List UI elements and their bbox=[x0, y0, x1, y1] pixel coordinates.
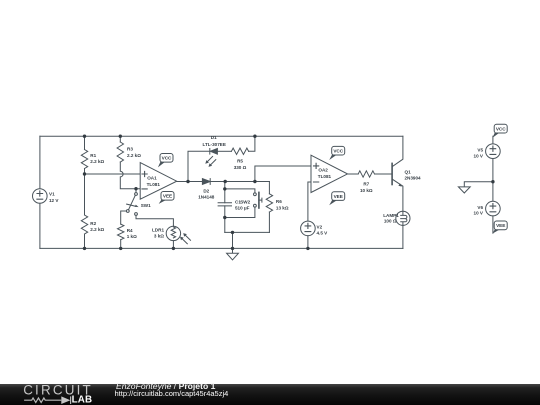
wire R5 to top rail bbox=[249, 136, 255, 151]
svg-text:R3: R3 bbox=[127, 147, 133, 152]
lamp LAMP1 bbox=[396, 211, 410, 225]
svg-text:R1: R1 bbox=[90, 153, 96, 158]
wire R1-R2 link bbox=[84, 169, 86, 216]
wire left rail upper bbox=[39, 136, 41, 189]
resistor R2 bbox=[81, 215, 87, 234]
wire R6 bottom stub bbox=[268, 212, 270, 232]
svg-text:OA1: OA1 bbox=[147, 176, 157, 181]
svg-text:LTL-307EE: LTL-307EE bbox=[202, 142, 225, 147]
wire R2 bottom stub bbox=[84, 234, 86, 248]
wire OA2 - input to V2 bbox=[308, 182, 311, 221]
wire R7 to Q1 base bbox=[375, 173, 392, 175]
wire V5 to V6 bbox=[492, 159, 494, 202]
svg-text:R6: R6 bbox=[276, 199, 282, 204]
wire VCC to V5 bbox=[492, 136, 494, 144]
wire left rail lower bbox=[39, 203, 41, 248]
svg-text:VCC: VCC bbox=[162, 156, 172, 161]
switch SW1 bbox=[135, 189, 137, 193]
footer credit text bbox=[116, 382, 215, 391]
power flag VCC (OA1) bbox=[158, 161, 165, 167]
svg-text:LDR1: LDR1 bbox=[152, 227, 164, 232]
voltage source V1 bbox=[33, 189, 48, 204]
svg-text:10 kΩ: 10 kΩ bbox=[360, 188, 373, 193]
wire R1 top stub bbox=[84, 136, 86, 149]
power flag VCC (OA2) bbox=[329, 154, 337, 160]
svg-text:SW1: SW1 bbox=[141, 203, 151, 208]
power flag VEE (OA2) bbox=[329, 200, 337, 205]
resistor R6 bbox=[266, 194, 272, 212]
svg-text:100 Ω: 100 Ω bbox=[384, 219, 397, 224]
wire OA2 + input bbox=[255, 166, 311, 182]
wire V6 to VEE bbox=[492, 216, 494, 233]
svg-text:OA2: OA2 bbox=[318, 168, 328, 173]
junction dots bbox=[83, 135, 495, 251]
svg-text:R7: R7 bbox=[363, 182, 369, 187]
ground (mid) bbox=[227, 253, 239, 260]
svg-text:R4: R4 bbox=[127, 228, 133, 233]
footer bar bbox=[0, 384, 540, 405]
wire SW2 top link bbox=[225, 189, 255, 193]
wire R6 top stub bbox=[268, 182, 270, 194]
svg-text:D2: D2 bbox=[203, 188, 209, 193]
svg-text:10 V: 10 V bbox=[474, 211, 484, 216]
voltage source V2 bbox=[301, 221, 316, 236]
resistor R5 bbox=[231, 148, 248, 154]
wire ground branch bbox=[464, 182, 493, 187]
svg-text:1N4148: 1N4148 bbox=[198, 195, 215, 200]
svg-text:13 kΩ: 13 kΩ bbox=[276, 206, 289, 211]
svg-text:V6: V6 bbox=[477, 205, 483, 210]
wire ground drop bbox=[232, 232, 234, 253]
svg-text:V1: V1 bbox=[49, 192, 55, 197]
labels bbox=[49, 126, 506, 239]
resistor R7 bbox=[358, 171, 374, 177]
svg-text:VEE: VEE bbox=[496, 223, 505, 228]
svg-text:12 V: 12 V bbox=[49, 198, 59, 203]
svg-text:V2: V2 bbox=[317, 224, 323, 229]
svg-text:4.5 V: 4.5 V bbox=[317, 231, 329, 236]
wire bottom rail bbox=[40, 247, 403, 249]
CircuitLab logo bbox=[0, 384, 110, 405]
wire R4 bottom stub bbox=[120, 240, 122, 249]
svg-text:TL081: TL081 bbox=[147, 182, 161, 187]
wire cap branch left column bbox=[224, 182, 226, 233]
diode D2 bbox=[202, 179, 210, 185]
wire lamp bottom stub bbox=[402, 225, 404, 248]
svg-text:VCC: VCC bbox=[333, 148, 343, 153]
svg-text:VEE: VEE bbox=[334, 194, 343, 199]
power flag VCC (V5) bbox=[493, 133, 500, 138]
transistor Q1 bbox=[391, 163, 393, 184]
wire LED to R5 bbox=[217, 150, 231, 152]
wire SW1 throw B to LDR1 bbox=[136, 215, 173, 226]
op-amp OA2 bbox=[311, 155, 348, 192]
svg-text:1 kΩ: 1 kΩ bbox=[127, 234, 137, 239]
capacitor C1 bbox=[218, 203, 231, 206]
voltage source V5 bbox=[486, 144, 501, 159]
svg-text:SW2: SW2 bbox=[240, 199, 250, 204]
resistor R1 bbox=[81, 150, 87, 169]
wire LED branch riser bbox=[188, 151, 210, 181]
op-amp OA1 bbox=[140, 163, 177, 200]
wire R3 to inverting node with hop over + row bbox=[120, 162, 140, 189]
LED D1 bbox=[209, 149, 211, 155]
wire V2 bottom stub bbox=[307, 236, 309, 249]
power flag VEE (OA1) bbox=[159, 199, 167, 204]
svg-text:2N3904: 2N3904 bbox=[405, 176, 422, 181]
svg-text:VEE: VEE bbox=[163, 194, 172, 199]
svg-text:LAB: LAB bbox=[72, 395, 93, 405]
wire block bottom row bbox=[225, 231, 270, 233]
pushbutton SW2 bbox=[254, 193, 257, 196]
svg-text:R2: R2 bbox=[90, 221, 96, 226]
resistor R3 bbox=[117, 142, 123, 162]
svg-text:2.2 kΩ: 2.2 kΩ bbox=[90, 159, 104, 164]
wire output node row bbox=[210, 181, 269, 183]
svg-text:3 kΩ: 3 kΩ bbox=[154, 234, 164, 239]
svg-text:TL081: TL081 bbox=[318, 174, 332, 179]
wire OA2 output bbox=[348, 173, 359, 175]
wire noninverting input row bbox=[85, 173, 141, 175]
svg-text:V5: V5 bbox=[477, 148, 483, 153]
wire OA1 output row bbox=[177, 181, 202, 183]
resistor R4 bbox=[117, 224, 123, 240]
voltage source V6 bbox=[486, 201, 501, 216]
svg-text:Q1: Q1 bbox=[405, 169, 412, 174]
wire SW2 bottom link bbox=[225, 207, 255, 217]
svg-text:D1: D1 bbox=[211, 135, 217, 140]
svg-text:510 µF: 510 µF bbox=[235, 206, 250, 211]
photoresistor LDR1 bbox=[166, 226, 180, 240]
ground (right) bbox=[458, 187, 470, 193]
wire SW1 throw A to R4 bbox=[121, 211, 127, 224]
svg-text:LAMP1: LAMP1 bbox=[383, 213, 399, 218]
wire R3 top stub bbox=[119, 136, 121, 142]
svg-text:VCC: VCC bbox=[496, 126, 506, 131]
wire top rail bbox=[40, 135, 403, 137]
wire LDR1 bottom stub bbox=[172, 241, 174, 249]
svg-text:R5: R5 bbox=[237, 159, 243, 164]
svg-text:330 Ω: 330 Ω bbox=[234, 165, 247, 170]
power flag VEE (V6) bbox=[492, 229, 499, 233]
svg-text:10 V: 10 V bbox=[474, 153, 484, 158]
svg-text:2.2 kΩ: 2.2 kΩ bbox=[127, 153, 141, 158]
svg-text:2.2 kΩ: 2.2 kΩ bbox=[90, 227, 104, 232]
